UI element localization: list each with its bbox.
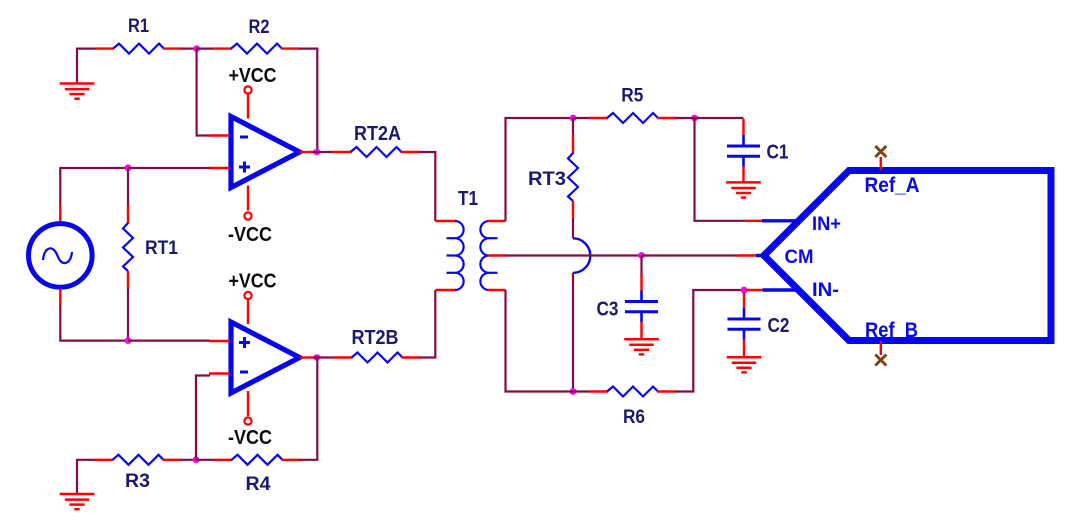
resistor RT2A <box>333 151 352 153</box>
transformer T1 secondary winding <box>480 221 489 290</box>
pin IN- blue stub <box>763 288 799 291</box>
no-connect X on Ref_B <box>875 355 886 366</box>
svg-text:C1: C1 <box>767 142 789 164</box>
junction node source/RT1 top <box>125 164 132 171</box>
pin T1 secondary top <box>488 220 506 222</box>
pin T1 secondary center tap <box>488 254 506 256</box>
wire source top to op-amp + input <box>60 168 128 206</box>
ground GND3 under C1 <box>726 181 761 184</box>
wire C1 branch <box>695 117 744 119</box>
svg-text:C3: C3 <box>597 299 619 321</box>
resistor R5 <box>589 117 608 119</box>
pin IN+ blue stub <box>762 219 798 222</box>
wire RT2A to T1 primary top <box>419 152 436 221</box>
wire R4 to U2 output junction <box>300 358 318 460</box>
pin IN- red segment <box>746 289 764 291</box>
power pin +VCC U1 <box>244 86 251 93</box>
capacitor C1 <box>742 119 744 136</box>
svg-text:IN-: IN- <box>812 280 839 301</box>
capacitor C3 <box>640 275 642 292</box>
ground GND5 under C2 <box>727 356 762 359</box>
svg-text:R3: R3 <box>125 471 150 492</box>
wire RT2B to T1 primary bottom <box>420 290 436 358</box>
svg-text:R2: R2 <box>249 17 270 38</box>
resistor R3 <box>95 459 114 461</box>
ground GND1 top-left <box>60 82 95 85</box>
wire source bottom to junction <box>60 305 128 341</box>
no-connect X on Ref_A <box>875 146 886 157</box>
capacitor C2 <box>743 292 745 309</box>
wire U1 output to RT2A <box>313 151 333 153</box>
power pin +VCC U2 <box>244 292 251 299</box>
pin T1 primary top <box>435 220 456 222</box>
svg-text:C2: C2 <box>768 315 790 337</box>
junction node RT1 bottom <box>125 337 132 344</box>
svg-text:+VCC: +VCC <box>229 271 277 293</box>
pin CM blue stub <box>756 254 766 257</box>
svg-text:IN+: IN+ <box>812 214 841 235</box>
instrumentation amplifier U3 body <box>764 171 1051 341</box>
junction node R5/RT3 <box>570 115 577 122</box>
wire RT1 top <box>127 168 129 205</box>
wire C3 top <box>640 256 642 277</box>
pin CM red segment <box>737 254 757 256</box>
wire junction up to U2 - input <box>196 376 210 460</box>
svg-text:+VCC: +VCC <box>229 65 277 87</box>
wire CM net <box>505 254 642 256</box>
wire junction to op-amp2 + input <box>128 340 210 342</box>
resistor R1 <box>95 47 114 49</box>
power pin -VCC U1 <box>244 212 251 219</box>
resistor R2 <box>213 47 232 49</box>
wire RT1 bottom <box>127 288 129 341</box>
svg-text:R6: R6 <box>623 407 645 428</box>
junction node R3/R4/U2 inverting <box>193 456 200 463</box>
op-amp U2 (bottom) <box>231 322 300 393</box>
svg-text:CM: CM <box>785 247 814 268</box>
svg-text:Ref_B: Ref_B <box>865 319 918 342</box>
wire R3 to junction <box>181 459 197 461</box>
wire R2 to feedback corner <box>299 49 317 151</box>
svg-text:RT2A: RT2A <box>354 123 401 145</box>
pin source bottom <box>59 289 61 306</box>
pin Ref_B <box>880 341 882 355</box>
pin T1 secondary bottom <box>488 289 506 291</box>
transformer T1 primary winding <box>455 221 464 290</box>
sine source V1 <box>29 224 93 288</box>
wire R1 to junction <box>181 47 197 49</box>
op-amp U1 (top) <box>231 117 300 188</box>
pin source top <box>59 205 61 222</box>
svg-text:-VCC: -VCC <box>228 427 272 449</box>
wire junction to op-amp1 + input <box>128 167 210 169</box>
svg-text:T1: T1 <box>458 188 478 210</box>
wire CM to device <box>642 254 739 256</box>
ground GND4 under C3 <box>624 338 659 341</box>
resistor R4 <box>214 459 233 461</box>
junction node C2/IN- <box>741 287 748 294</box>
svg-text:RT1: RT1 <box>145 238 178 259</box>
wire U2 output to RT2B <box>313 356 334 358</box>
junction node U2 output <box>313 354 320 361</box>
wire hop to R6 junction <box>572 273 574 392</box>
power pin -VCC U2 <box>244 417 251 424</box>
junction node R1/R2/op-amp inverting <box>193 45 200 52</box>
wire T1 secondary bottom to R6 row <box>506 290 574 392</box>
wire RT3 bottom to hop <box>572 218 574 238</box>
wire ground to R3 <box>77 460 96 493</box>
resistor RT3 <box>572 134 574 154</box>
junction node C3/CM <box>638 252 645 259</box>
wire RT3 top <box>572 118 574 135</box>
svg-text:-VCC: -VCC <box>228 224 272 246</box>
resistor RT1 <box>127 204 129 224</box>
wire R4 from junction <box>196 459 214 461</box>
wire junction to R5 <box>573 117 591 119</box>
wire R6 from junction <box>573 390 590 392</box>
svg-text:Ref_A: Ref_A <box>865 174 920 197</box>
svg-text:RT3: RT3 <box>528 169 566 190</box>
wire hop over CM net <box>573 238 590 273</box>
wire R5 to junction <box>675 117 695 119</box>
junction node R6 left <box>570 388 577 395</box>
resistor R6 <box>589 390 608 392</box>
wire R2 from junction <box>197 47 214 49</box>
resistor RT2B <box>334 356 353 358</box>
wire IN+ net <box>695 118 747 221</box>
pin IN+ red segment <box>745 220 763 222</box>
pin T1 primary bottom <box>435 289 456 291</box>
pin Ref_A <box>880 157 882 170</box>
junction node U1 output <box>313 149 320 156</box>
wire R6 to IN- riser <box>675 290 744 392</box>
wire T1 secondary top to R5 row <box>506 118 574 221</box>
svg-text:RT2B: RT2B <box>352 327 399 349</box>
svg-text:R1: R1 <box>128 16 149 37</box>
junction node R5 right / C1 / IN+ <box>691 115 698 122</box>
svg-text:R4: R4 <box>246 474 271 495</box>
wire junction down to inverting input <box>197 49 210 136</box>
svg-text:R5: R5 <box>621 86 643 107</box>
wire ground to R1 <box>77 49 96 83</box>
ground GND2 bottom-left <box>60 493 95 496</box>
